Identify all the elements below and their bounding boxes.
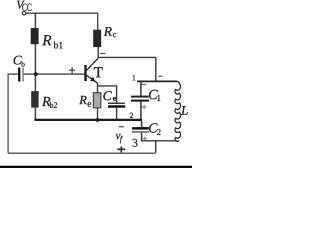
plus sign vf bottom: [117, 146, 125, 152]
wire top rail: [26, 12, 98, 14]
wire emitter vertical: [97, 83, 99, 120]
capacitor C2 top plate: [132, 127, 149, 130]
junction dot emitter node: [96, 118, 100, 122]
capacitor Ce bottom plate: [108, 105, 125, 107]
capacitor C1 bottom plate: [131, 100, 149, 102]
label vf: [116, 134, 123, 143]
label Re: [79, 96, 91, 107]
label Ce: [103, 91, 116, 101]
capacitor Cb left plate: [18, 68, 20, 82]
wire Rc to collector node: [97, 47, 99, 58]
inductor L coil: [175, 81, 181, 141]
wire top corner down to Rc: [97, 13, 99, 30]
label Rb2: [42, 97, 57, 108]
wire tank top vertical: [155, 57, 157, 81]
label node 2: [130, 113, 133, 118]
wire node3 to ground rail: [155, 141, 157, 153]
node 2 rail: [34, 119, 142, 121]
wire left stub to Cb: [8, 73, 18, 75]
minus sign above node1 wire right: [158, 76, 162, 77]
label Cb: [14, 56, 25, 67]
label Rc: [104, 27, 116, 37]
resistor Rb1: [31, 28, 39, 44]
label L: [181, 106, 188, 115]
node 3 wire: [141, 140, 176, 142]
ground rail: [8, 152, 156, 154]
label Rb1: [42, 35, 62, 48]
transistor collector lead: [87, 58, 99, 70]
label node 1: [133, 75, 136, 80]
minus sign below node1 wire: [142, 84, 147, 85]
resistor Rb2: [31, 91, 38, 108]
minus sign vf top: [119, 126, 124, 127]
wire emitter branch to Ce: [98, 86, 117, 103]
label Vcc: [17, 1, 32, 11]
label C1: [149, 90, 161, 101]
wire Rb1 to base junction: [34, 44, 36, 91]
plus sign below C1: [142, 105, 147, 110]
wire C2 top: [141, 121, 143, 127]
wire Rb2 to node2 rail: [34, 108, 36, 120]
wire C1 top: [140, 81, 142, 95]
resistor Re: [93, 93, 101, 108]
wire C2 bottom: [141, 133, 143, 141]
capacitor C1 top plate: [131, 96, 149, 98]
transistor emitter arrowhead: [90, 77, 95, 82]
label node 3: [133, 139, 138, 147]
plus sign right of C2 bottom: [143, 137, 147, 141]
resistor Rc: [93, 30, 101, 47]
junction dot base divider: [34, 72, 38, 76]
wire Cb to transistor base: [24, 73, 85, 75]
wire Ce bottom: [116, 108, 118, 120]
minus sign at collector node: [100, 53, 106, 54]
wire left rail vertical: [7, 74, 9, 154]
transistor emitter lead: [87, 75, 98, 83]
wire collector node to tank: [98, 56, 156, 58]
capacitor Ce top plate: [108, 103, 125, 105]
capacitor Cb right plate: [22, 68, 24, 82]
bottom border bar: [0, 166, 192, 169]
wire C1 bottom: [140, 102, 142, 119]
transistor T base bar: [84, 65, 86, 81]
label C2: [149, 123, 161, 135]
power terminal Vcc: [22, 11, 26, 15]
capacitor C2 bottom plate: [132, 131, 149, 133]
node 1 wire: [137, 80, 177, 82]
label T: [94, 67, 103, 77]
wire Vcc rail to Rb1: [34, 13, 36, 28]
plus sign near base: [69, 67, 75, 73]
